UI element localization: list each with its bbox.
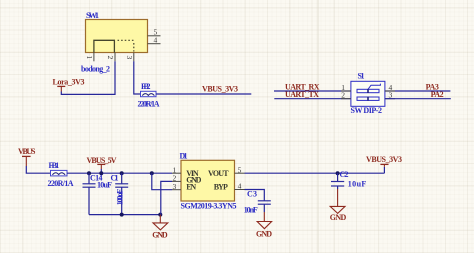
D1 pin 4 [235, 181, 245, 190]
svg-text:VOUT: VOUT [208, 169, 229, 178]
junction at D1 VIN/EN tie [150, 171, 154, 175]
SW1 pin 1 [85, 53, 94, 62]
S1 pin 1 stub [341, 90, 351, 92]
svg-text:C2: C2 [340, 170, 349, 179]
SW1 pin 4 [148, 36, 161, 45]
D1 pin 3 [172, 182, 181, 191]
svg-text:Lora_3V3: Lora_3V3 [53, 78, 85, 87]
junction at FB1 rail / C14 [87, 171, 91, 175]
svg-text:FB2: FB2 [141, 82, 151, 91]
capacitor C14 [83, 173, 113, 214]
svg-text:C3: C3 [247, 189, 257, 198]
D1 pin 1 [172, 165, 181, 174]
svg-text:UART_TX: UART_TX [285, 90, 319, 99]
capacitor C1 [111, 173, 129, 214]
power port VBUS [18, 147, 36, 166]
svg-text:SW1: SW1 [86, 10, 99, 20]
ferrite bead FB1 [48, 161, 74, 188]
S1 pin 3 stub [385, 98, 395, 100]
svg-text:S1: S1 [358, 72, 365, 81]
regulator D1 [180, 152, 237, 211]
ground GND (left) [152, 215, 168, 240]
dip switch S1 [351, 72, 385, 116]
svg-text:4: 4 [238, 181, 242, 190]
svg-text:220R/1A: 220R/1A [48, 179, 74, 188]
wire S1 pin4 to PA3 [385, 90, 451, 92]
svg-text:BYP: BYP [214, 183, 228, 192]
D1 pin 2 [172, 174, 181, 183]
svg-text:FB1: FB1 [49, 161, 60, 170]
svg-text:GND: GND [256, 229, 272, 238]
SW1 pin 3 [125, 53, 134, 62]
svg-text:VBUS_5V: VBUS_5V [87, 156, 117, 165]
wire riser to VBUS_3V3 [383, 167, 385, 173]
wire UART_TX [274, 98, 351, 100]
svg-text:D1: D1 [180, 152, 188, 161]
major grid emphasis line [317, 0, 319, 253]
junction at C2 [336, 171, 340, 175]
wire SW1 pin3 to FB2 [134, 61, 141, 94]
svg-text:4: 4 [154, 36, 158, 45]
svg-text:SW DIP-2: SW DIP-2 [351, 106, 383, 115]
junction gnd rail [158, 213, 162, 217]
wire UART_RX [274, 90, 351, 92]
power port VBUS_3V3 [366, 155, 402, 167]
wire FB1 to D1 VIN [67, 172, 172, 174]
SW1 switch bracket symbol [94, 40, 115, 52]
svg-text:220R/1A: 220R/1A [138, 99, 160, 108]
ferrite bead FB2 [138, 82, 160, 108]
svg-text:bodong_2: bodong_2 [81, 65, 110, 74]
wire FB2 to VBUS_3V3 [156, 93, 251, 95]
svg-text:10nF: 10nF [244, 206, 258, 215]
svg-text:VBUS_3V3: VBUS_3V3 [366, 155, 402, 164]
svg-text:2: 2 [106, 56, 115, 60]
wire Lora_3V3 to SW1 pin2 [61, 61, 115, 94]
SW1 pin 2 [106, 53, 115, 62]
svg-text:GND: GND [330, 213, 347, 222]
wire VBUS to FB1 [26, 166, 50, 173]
wire S1 pin3 to PA2 [385, 98, 451, 100]
junction at C1 [120, 171, 124, 175]
svg-text:PA2: PA2 [431, 90, 444, 99]
svg-text:EN: EN [186, 183, 196, 192]
S1 pin 2 stub [341, 98, 351, 100]
capacitor C3 [244, 189, 271, 214]
svg-text:VBUS: VBUS [18, 147, 36, 156]
wire BYP to C3 [245, 190, 265, 201]
junction at VBUS_5V [99, 171, 103, 175]
ground GND (C2) [330, 189, 347, 222]
svg-text:5: 5 [238, 165, 242, 174]
svg-text:1: 1 [85, 56, 94, 60]
svg-text:C1: C1 [111, 173, 119, 182]
SW1 dotted actuator link [118, 40, 135, 51]
wire D1 GND pin down [161, 181, 172, 214]
svg-text:100nF: 100nF [116, 189, 125, 206]
switch SW1 [86, 10, 148, 53]
D1 pin 5 [235, 165, 245, 174]
gnd rail under capacitors [89, 214, 160, 216]
power port VBUS_5V [87, 156, 117, 173]
wire VOUT rail [245, 172, 385, 174]
svg-text:VBUS_3V3: VBUS_3V3 [202, 85, 238, 94]
power port Lora_3V3 [53, 78, 85, 92]
wire VIN to EN tie [152, 173, 172, 190]
ground GND (C3) [256, 212, 272, 238]
SW1 pin 5 [148, 28, 161, 37]
svg-text:3: 3 [173, 182, 177, 191]
svg-text:10uF: 10uF [348, 179, 367, 188]
capacitor C2 [331, 170, 366, 189]
svg-text:3: 3 [125, 56, 134, 60]
svg-text:SGM2019-3.3YN5: SGM2019-3.3YN5 [181, 202, 237, 211]
svg-text:GND: GND [152, 230, 168, 239]
junction C1 bottom [120, 213, 124, 217]
S1 pin 4 stub [385, 90, 395, 92]
